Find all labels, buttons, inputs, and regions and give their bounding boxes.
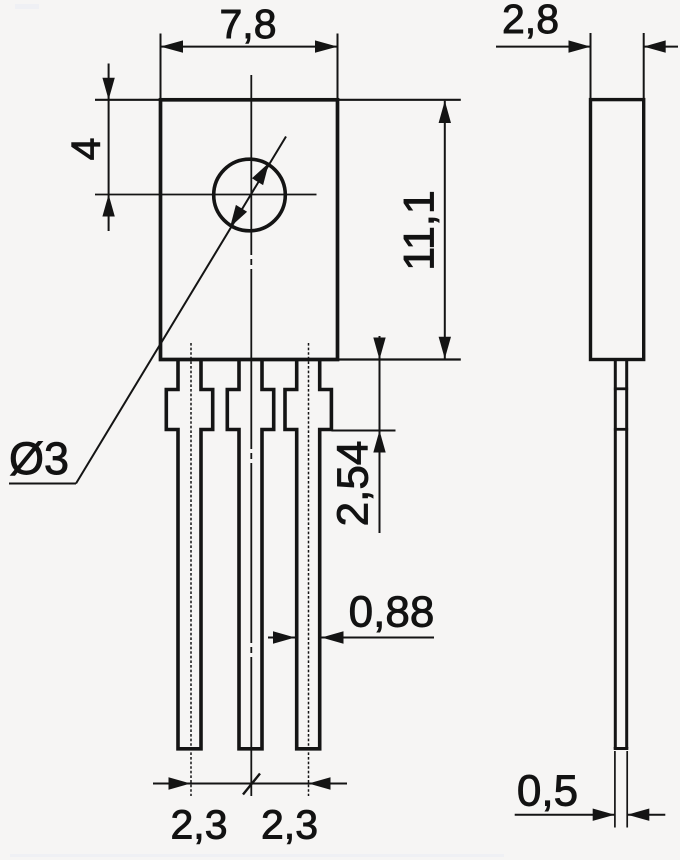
arrowhead 2,3 right [309,777,331,789]
svg-text:2,3: 2,3 [171,802,228,848]
dimension 2,54 line [379,336,381,533]
centerline lead 1 [190,343,192,796]
dimension 0,5 extension left [614,751,616,828]
dimension 2,8 extension left [590,33,592,100]
arrowhead 0,88 left [273,631,295,643]
dimension 0,5 extension right [626,751,628,828]
faint top-left scan mark [15,4,39,9]
arrowhead 4 bottom [102,195,114,217]
arrowhead 11,1 top [439,101,451,123]
centerline lead 3 [308,343,310,796]
arrowhead 7,8 right [315,40,338,52]
faint bottom scan line [10,854,504,857]
side view lead left edge [614,361,617,749]
svg-text:2,8: 2,8 [502,0,559,42]
extension line top-right (body top level) [338,99,461,101]
side view lead shoulder tick upper [614,387,628,390]
dimension 4 line [108,64,110,232]
dimension 2,3 center slash [243,774,260,795]
arrowhead hole diameter lower [230,205,247,227]
dimension 7,8 extension right [337,34,339,100]
side view lead shoulder tick lower [614,428,628,431]
arrowhead 11,1 bottom [439,337,451,359]
svg-text:0,5: 0,5 [517,767,578,816]
dimension 0,88 left tail [268,637,295,639]
horizontal centerline of hole [95,194,317,196]
side view lead bottom cap [614,747,629,750]
lead 2 outline [227,360,273,749]
extension line top-left (body top level) [95,99,161,101]
dimension 2,54 extension tick [331,430,395,432]
arrowhead 2,3 left [169,777,191,789]
dimension 2,3 line [153,783,347,785]
arrowhead 2,54 bottom [373,431,385,453]
arrowhead 0,5 right [627,809,649,821]
arrowhead 0,88 right [322,631,344,643]
dimension 2,8 left tail [496,46,591,48]
extension line bottom-right (body bottom level) [338,358,461,360]
leader underline of hole diameter label [9,483,76,485]
dimension 0,5 right tail [627,814,665,816]
arrowhead 2,8 left [569,40,591,52]
arrowhead 4 top [102,78,114,100]
svg-text:0,88: 0,88 [349,588,435,637]
dimension 7,8 line [161,46,338,48]
dimension 2,8 extension right [643,33,645,100]
svg-text:Ø3: Ø3 [9,433,69,484]
vertical main centerline [250,75,252,796]
dimension 0,5 left tail [515,814,615,816]
svg-text:4: 4 [63,138,109,161]
svg-text:11,1: 11,1 [396,190,444,271]
mounting hole [214,159,286,231]
body front view [161,100,338,360]
side view body [591,100,644,360]
dimension 11,1 line [444,101,446,359]
lead 1 outline [166,360,212,749]
svg-text:2,54: 2,54 [329,441,378,527]
arrowhead 2,54 top [373,338,385,360]
arrowhead 7,8 left [161,40,184,52]
dimension 2,8 right tail [644,46,678,48]
lead 3 outline [285,360,331,749]
svg-text:7,8: 7,8 [220,1,277,47]
leader line of hole diameter [76,137,286,484]
svg-text:2,3: 2,3 [261,802,318,848]
arrowhead 2,8 right [644,40,666,52]
arrowhead 0,5 left [593,809,615,821]
arrowhead hole diameter upper [252,163,269,185]
side view lead right edge [625,361,628,749]
dimension 0,88 right tail [322,637,435,639]
dimension 7,8 extension left [160,34,162,100]
